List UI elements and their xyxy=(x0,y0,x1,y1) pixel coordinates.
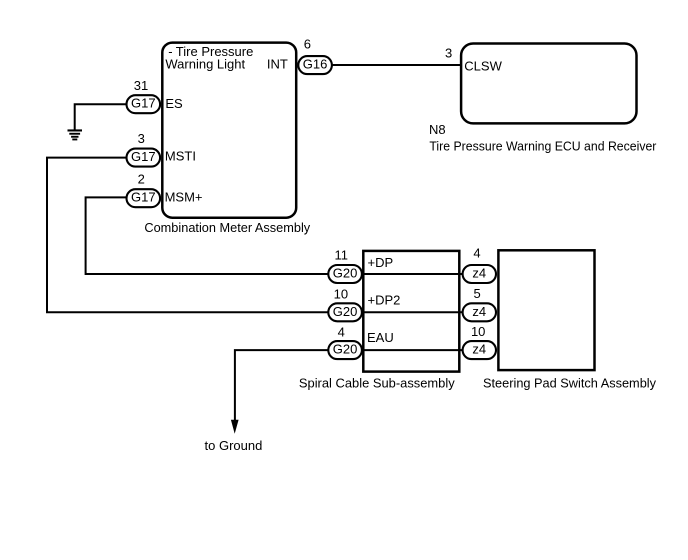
connector G20 (+DP2) xyxy=(328,303,362,321)
svg-text:G17: G17 xyxy=(131,96,156,111)
connector z4 (row1) xyxy=(463,265,496,283)
svg-text:z4: z4 xyxy=(472,266,486,281)
svg-text:Combination Meter Assembly: Combination Meter Assembly xyxy=(144,220,310,235)
svg-text:G20: G20 xyxy=(333,266,358,281)
svg-text:10: 10 xyxy=(471,324,485,339)
svg-text:ES: ES xyxy=(165,96,183,111)
wire EAU to ground arrow xyxy=(235,350,340,420)
svg-text:z4: z4 xyxy=(472,304,486,319)
connector G16 (INT) xyxy=(298,56,332,74)
svg-text:G17: G17 xyxy=(131,149,156,164)
svg-text:Spiral Cable Sub-assembly: Spiral Cable Sub-assembly xyxy=(299,376,455,391)
connector G17 (MSM+) xyxy=(127,189,161,207)
svg-text:+DP2: +DP2 xyxy=(368,292,401,307)
wire +DP row through spiral cable xyxy=(340,273,490,275)
wire +DP2 row through spiral cable xyxy=(340,311,490,313)
steering pad switch assembly box xyxy=(483,250,656,390)
svg-text:3: 3 xyxy=(138,131,145,146)
wire G16 to CLSW xyxy=(332,64,461,66)
svg-text:G20: G20 xyxy=(333,304,358,319)
svg-text:MSM+: MSM+ xyxy=(165,190,203,205)
svg-text:Tire Pressure Warning ECU and: Tire Pressure Warning ECU and Receiver xyxy=(429,138,657,153)
wire MSM+ to +DP row xyxy=(86,197,329,274)
spiral cable sub-assembly box xyxy=(299,251,459,391)
svg-text:2: 2 xyxy=(138,171,145,186)
svg-text:G17: G17 xyxy=(131,190,156,205)
connector G20 (+DP) xyxy=(328,265,362,283)
svg-text:4: 4 xyxy=(473,245,480,260)
connector z4 (row2) xyxy=(463,303,496,321)
wire MSTI to +DP2 row xyxy=(47,158,329,313)
svg-text:G16: G16 xyxy=(303,57,328,72)
svg-text:6: 6 xyxy=(304,36,311,51)
svg-text:Warning Light: Warning Light xyxy=(165,57,245,72)
connector G20 (EAU) xyxy=(328,341,362,359)
svg-text:z4: z4 xyxy=(472,342,486,357)
connector G17 (ES) xyxy=(127,95,161,113)
tire pressure warning ECU box N8 xyxy=(429,44,657,154)
svg-text:MSTI: MSTI xyxy=(165,148,196,163)
connector G17 (MSTI) xyxy=(127,149,161,167)
combination meter assembly box xyxy=(144,43,310,236)
svg-text:to Ground: to Ground xyxy=(205,438,263,453)
svg-text:EAU: EAU xyxy=(367,330,394,345)
svg-text:11: 11 xyxy=(335,247,349,262)
arrowhead to ground xyxy=(231,420,239,434)
svg-text:4: 4 xyxy=(338,325,345,340)
svg-text:CLSW: CLSW xyxy=(464,58,502,73)
svg-text:N8: N8 xyxy=(429,122,446,137)
svg-text:5: 5 xyxy=(473,286,480,301)
svg-text:10: 10 xyxy=(334,287,348,302)
ground xyxy=(68,129,83,140)
connector z4 (row3) xyxy=(463,341,496,359)
svg-text:31: 31 xyxy=(134,78,148,93)
wire EAU row through spiral cable xyxy=(340,349,490,351)
svg-text:G20: G20 xyxy=(333,342,358,357)
svg-text:INT: INT xyxy=(267,57,288,72)
wire ES to ground xyxy=(75,104,127,130)
svg-text:Steering Pad Switch Assembly: Steering Pad Switch Assembly xyxy=(483,376,656,391)
svg-text:3: 3 xyxy=(445,46,452,61)
svg-text:+DP: +DP xyxy=(368,255,394,270)
